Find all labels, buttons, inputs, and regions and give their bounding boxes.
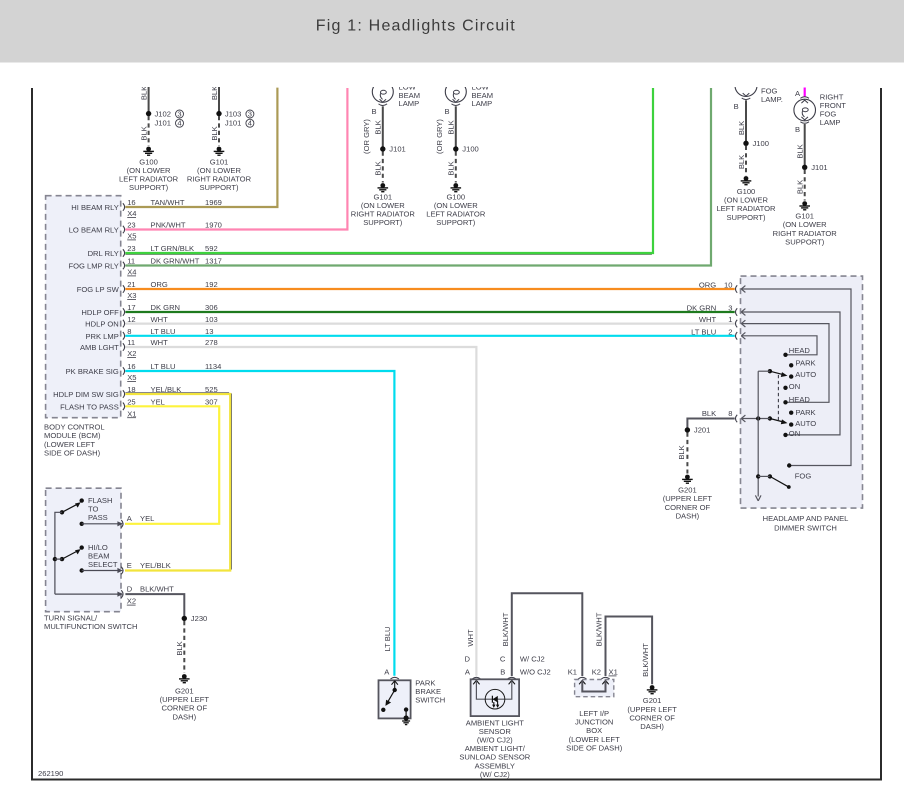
svg-text:8: 8 [728, 409, 732, 418]
svg-text:BLK: BLK [210, 126, 219, 140]
svg-text:A: A [384, 667, 390, 676]
svg-text:YEL/BLK: YEL/BLK [151, 385, 182, 394]
svg-text:PRK LMP: PRK LMP [85, 332, 118, 341]
svg-text:PARK: PARK [796, 408, 816, 417]
svg-text:BLK: BLK [447, 161, 456, 175]
svg-text:4: 4 [177, 119, 181, 128]
svg-text:1970: 1970 [205, 221, 222, 230]
wire BLK/WHT sensor B to junction box K1 [501, 593, 582, 676]
svg-text:SELECT: SELECT [88, 560, 118, 569]
wire BLK to splice J102 [139, 80, 148, 114]
svg-text:278: 278 [205, 338, 218, 347]
svg-text:J103: J103 [225, 109, 241, 118]
wire BLK/WHT to J230 [125, 594, 184, 618]
svg-text:J101: J101 [389, 145, 405, 154]
svg-text:X2: X2 [127, 349, 136, 358]
svg-text:BLK: BLK [677, 445, 686, 459]
svg-text:HEADLAMP AND PANEL: HEADLAMP AND PANEL [763, 514, 849, 523]
splice J101 (right fog lamp) [802, 163, 828, 172]
svg-text:PK BRAKE SIG: PK BRAKE SIG [66, 367, 119, 376]
ground G100 (fog lamp) [716, 176, 776, 222]
svg-text:AUTO: AUTO [795, 419, 816, 428]
svg-text:103: 103 [205, 315, 218, 324]
wire LT BLU label [383, 626, 392, 651]
wire BLK dashed J103 to G101 [210, 116, 219, 146]
splice J230 [182, 614, 208, 623]
svg-text:LAMP: LAMP [399, 99, 420, 108]
dimmer pin 3 DK GRN [687, 304, 840, 435]
BCM pin FOG LP SW 21 X3 [77, 280, 218, 300]
svg-text:X4: X4 [127, 209, 136, 218]
svg-text:LAMP.: LAMP. [761, 95, 783, 104]
svg-text:X5: X5 [127, 232, 136, 241]
svg-text:J102: J102 [155, 109, 171, 118]
svg-text:D: D [127, 585, 133, 594]
svg-text:BLK: BLK [374, 161, 383, 175]
svg-text:X1: X1 [127, 409, 136, 418]
switch output D + wire [55, 585, 174, 606]
BCM pin PRK LMP 8 [85, 327, 213, 341]
low beam lamp right (LOW BEAM LAMP) [444, 81, 493, 116]
svg-text:TAN/WHT: TAN/WHT [151, 198, 185, 207]
headlamp switch upper contacts [783, 346, 816, 391]
BCM pin HDLP DIM SW SIG 18 [53, 385, 218, 399]
svg-text:1317: 1317 [205, 257, 222, 266]
svg-text:BLK: BLK [139, 86, 148, 100]
svg-text:11: 11 [127, 257, 135, 266]
splice J100 (right lamp) [453, 145, 479, 154]
svg-text:BLK: BLK [374, 120, 383, 134]
svg-text:HDLP ON: HDLP ON [85, 320, 119, 329]
wire LT GRN/BLK 592 DRL RLY [125, 88, 653, 255]
switch FLASH TO PASS [60, 496, 113, 522]
svg-text:D: D [465, 654, 471, 663]
svg-text:W/O CJ2: W/O CJ2 [520, 668, 551, 677]
svg-text:FOG: FOG [795, 472, 812, 481]
svg-text:J100: J100 [462, 145, 478, 154]
dimmer pin 8 BLK [702, 409, 770, 422]
BCM pin FOG LMP RLY 11 X4 [68, 257, 221, 277]
wire BLK dashed to ground G101 [374, 152, 383, 183]
headlamp switch lower contacts [783, 395, 816, 438]
svg-text:DRL RLY: DRL RLY [88, 249, 119, 258]
body control module BCM box [44, 196, 121, 458]
header bar [0, 0, 904, 63]
svg-text:306: 306 [205, 303, 218, 312]
svg-text:X5: X5 [127, 373, 136, 382]
svg-text:1969: 1969 [205, 198, 222, 207]
ground G101 [187, 147, 252, 193]
svg-text:17: 17 [127, 303, 135, 312]
svg-text:J201: J201 [694, 426, 710, 435]
svg-text:DK GRN/WHT: DK GRN/WHT [151, 257, 200, 266]
svg-text:BLK: BLK [139, 126, 148, 140]
wire DK GRN/WHT 1317 FOG LMP RLY [125, 88, 711, 266]
splice label J101 (4) [225, 119, 254, 128]
svg-text:BLK/WHT: BLK/WHT [140, 585, 174, 594]
wire BLK right fog lamp to J101 [796, 124, 805, 167]
svg-text:FOG LMP RLY: FOG LMP RLY [68, 262, 118, 271]
svg-text:SUPPORT): SUPPORT) [363, 218, 403, 227]
svg-text:HDLP OFF: HDLP OFF [81, 308, 119, 317]
svg-text:PASS: PASS [88, 513, 108, 522]
wire YEL 307 FLASH TO PASS [125, 406, 219, 524]
svg-text:J101: J101 [155, 119, 171, 128]
svg-text:BLK: BLK [796, 144, 805, 158]
svg-text:SWITCH: SWITCH [415, 696, 445, 705]
BCM pin FLASH TO PASS 25 X1 [60, 398, 218, 419]
wire BLK dashed J201 to G201 [677, 433, 687, 474]
svg-text:25: 25 [127, 398, 135, 407]
svg-text:C: C [500, 654, 506, 663]
svg-text:LT GRN/BLK: LT GRN/BLK [151, 244, 195, 253]
fog switch [756, 463, 811, 489]
svg-text:SUPPORT): SUPPORT) [199, 183, 239, 192]
diagram border bottom [31, 779, 882, 781]
headlamp switch upper blade [758, 369, 787, 377]
svg-text:525: 525 [205, 385, 218, 394]
svg-text:LT BLU: LT BLU [151, 327, 176, 336]
svg-text:SUPPORT): SUPPORT) [129, 183, 169, 192]
svg-text:MULTIFUNCTION SWITCH: MULTIFUNCTION SWITCH [44, 622, 138, 631]
svg-text:21: 21 [127, 280, 135, 289]
svg-text:X2: X2 [127, 597, 136, 606]
svg-text:(OR GRY): (OR GRY) [435, 119, 444, 154]
switch contact E + wire [80, 561, 171, 574]
svg-text:16: 16 [127, 362, 135, 371]
svg-text:AUTO: AUTO [795, 370, 816, 379]
svg-text:LT BLU: LT BLU [151, 362, 176, 371]
svg-text:K2: K2 [592, 668, 601, 677]
svg-text:BLK: BLK [737, 155, 746, 169]
svg-text:YEL/BLK: YEL/BLK [140, 561, 171, 570]
wire BLK dashed to ground G101 (right fog) [796, 170, 805, 201]
fog lamp (FOG LAMP.) [734, 75, 783, 111]
svg-text:B: B [500, 668, 505, 677]
svg-text:PARK: PARK [796, 359, 816, 368]
svg-text:DK GRN: DK GRN [151, 303, 181, 312]
switch gang link dashed [777, 375, 779, 421]
svg-text:13: 13 [205, 327, 213, 336]
svg-text:X4: X4 [127, 268, 136, 277]
svg-text:3: 3 [248, 110, 252, 119]
splice J102 [146, 109, 184, 118]
BCM pin PK BRAKE SIG 16 X5 [66, 362, 222, 382]
svg-text:3: 3 [728, 304, 732, 313]
svg-text:BLK: BLK [796, 180, 805, 194]
ground G101 (left lamp) [351, 183, 416, 227]
splice J103 [216, 109, 254, 118]
svg-text:DK GRN: DK GRN [687, 304, 717, 313]
svg-text:B: B [371, 107, 376, 116]
BCM pin AMB LGHT 11 X2 [80, 338, 218, 358]
ground G101 (right fog lamp) [773, 201, 838, 246]
svg-text:ORG: ORG [699, 281, 716, 290]
svg-text:HDLP DIM SW SIG: HDLP DIM SW SIG [53, 390, 119, 399]
svg-text:HEAD: HEAD [789, 395, 811, 404]
wire YEL/BLK 525 HDLP DIM SW SIG [125, 393, 232, 571]
svg-text:1134: 1134 [205, 362, 221, 371]
svg-text:LAMP: LAMP [472, 99, 493, 108]
park brake switch [379, 667, 446, 724]
svg-text:AMB LGHT: AMB LGHT [80, 343, 119, 352]
svg-text:SUPPORT): SUPPORT) [785, 237, 825, 246]
svg-text:LO BEAM RLY: LO BEAM RLY [69, 226, 119, 235]
svg-text:A: A [465, 668, 471, 677]
svg-text:3: 3 [177, 110, 181, 119]
svg-text:FOG LP SW: FOG LP SW [77, 285, 120, 294]
svg-text:BLK: BLK [175, 641, 184, 655]
ground G100 (right lamp) [426, 183, 486, 227]
switch contact A + wire [80, 514, 155, 527]
wire BLK dashed to ground G100 (fog) [737, 146, 746, 176]
svg-text:X3: X3 [127, 291, 136, 300]
wire BLK dashed J102 to G100 [139, 116, 148, 146]
svg-text:ORG: ORG [151, 280, 168, 289]
svg-text:PNK/WHT: PNK/WHT [151, 221, 186, 230]
svg-text:(W/ CJ2): (W/ CJ2) [480, 770, 510, 779]
svg-text:SIDE OF DASH): SIDE OF DASH) [44, 448, 101, 457]
dimmer pin 1 WHT [699, 315, 829, 402]
wire BLK dashed J230 to G201 [175, 621, 185, 673]
svg-text:DIMMER SWITCH: DIMMER SWITCH [774, 524, 837, 533]
svg-text:HI BEAM RLY: HI BEAM RLY [71, 203, 119, 212]
wire DK GRN 306 HDLP OFF [125, 311, 734, 313]
wire BLK lamp right to J100 [435, 106, 456, 154]
svg-text:16: 16 [127, 198, 135, 207]
svg-text:YEL: YEL [151, 398, 165, 407]
svg-text:1: 1 [728, 315, 732, 324]
splice J101 (left lamp) [380, 145, 406, 154]
svg-text:192: 192 [205, 280, 218, 289]
wire BLK dashed to ground G100 [447, 152, 456, 183]
svg-text:J100: J100 [753, 139, 769, 148]
ground G100 [119, 147, 179, 193]
BCM pin HI BEAM RLY 16 X4 [71, 198, 222, 218]
svg-text:WHT: WHT [151, 315, 169, 324]
svg-text:DASH): DASH) [172, 712, 196, 721]
svg-text:SUPPORT): SUPPORT) [436, 218, 476, 227]
svg-text:592: 592 [205, 244, 218, 253]
svg-text:WHT: WHT [151, 338, 169, 347]
svg-text:ON: ON [789, 429, 800, 438]
svg-text:4: 4 [248, 119, 252, 128]
splice J201 [685, 426, 711, 435]
left I/P junction box [566, 668, 623, 753]
wire BLK fog lamp to J100 [737, 100, 746, 143]
wire BLK/WHT K2 to G201 [595, 612, 653, 684]
svg-text:BLK: BLK [737, 121, 746, 135]
svg-text:ON: ON [789, 382, 800, 391]
right front fog lamp [794, 92, 846, 134]
diagram border left [31, 88, 33, 780]
splice label J101 (3/4) [155, 119, 184, 128]
svg-text:262190: 262190 [38, 769, 63, 778]
svg-text:(OR GRY): (OR GRY) [362, 119, 371, 154]
svg-text:K1: K1 [568, 668, 577, 677]
wire WHT label [466, 629, 475, 647]
svg-text:SIDE OF DASH): SIDE OF DASH) [566, 743, 623, 752]
splice J100 (fog lamp) [743, 139, 769, 148]
svg-text:LT BLU: LT BLU [691, 327, 716, 336]
wire WHT 278 AMB LGHT [125, 347, 476, 676]
svg-text:LT BLU: LT BLU [383, 626, 392, 651]
wire ORG 192 FOG LP SW [125, 288, 734, 290]
dimmer pin 2 LT BLU [691, 327, 817, 355]
ground G201 (J230) [160, 674, 210, 721]
svg-text:11: 11 [127, 338, 135, 347]
svg-text:BLK/WHT: BLK/WHT [595, 612, 604, 646]
svg-text:BLK/WHT: BLK/WHT [501, 612, 510, 646]
BCM pin DRL RLY 23 [88, 244, 218, 258]
svg-text:X1: X1 [609, 668, 618, 677]
svg-text:8: 8 [127, 327, 131, 336]
wire BLK lamp left to J101 [362, 106, 383, 154]
svg-text:BLK: BLK [702, 409, 716, 418]
svg-text:B: B [444, 107, 449, 116]
svg-text:HEAD: HEAD [789, 346, 811, 355]
svg-text:LAMP: LAMP [820, 118, 841, 127]
svg-text:23: 23 [127, 221, 135, 230]
svg-text:W/ CJ2: W/ CJ2 [520, 654, 545, 663]
svg-text:2: 2 [728, 327, 732, 336]
BCM pin LO BEAM RLY 23 X5 [69, 221, 222, 241]
wire BLK dimmer pin8 to J201 [687, 419, 734, 431]
switch HI/LO BEAM SELECT [53, 543, 118, 569]
switch common vertical [755, 371, 761, 501]
svg-text:A: A [795, 89, 801, 98]
turn signal / multifunction switch box [44, 488, 138, 631]
wire TAN/WHT 1969 HI BEAM RLY [125, 88, 277, 207]
svg-text:BLK: BLK [447, 120, 456, 134]
svg-text:BLK: BLK [210, 86, 219, 100]
svg-text:23: 23 [127, 244, 135, 253]
svg-text:J230: J230 [191, 614, 207, 623]
headlamp switch lower blade [768, 416, 788, 424]
figure number 262190 [38, 769, 63, 778]
diagram border right [880, 88, 882, 780]
svg-text:307: 307 [205, 398, 218, 407]
svg-text:E: E [127, 561, 132, 570]
svg-text:A: A [127, 514, 133, 523]
svg-text:B: B [734, 102, 739, 111]
ground G201 (dimmer) [663, 475, 713, 521]
ambient light sensor [459, 654, 550, 779]
svg-text:DASH): DASH) [676, 511, 700, 520]
svg-text:18: 18 [127, 385, 135, 394]
svg-text:B: B [795, 125, 800, 134]
wire switch common bus [55, 512, 62, 594]
dimmer pin 10 ORG [699, 281, 851, 466]
wire PPL right front fog lamp feed [795, 88, 805, 98]
wire WHT 103 HDLP ON [125, 323, 734, 325]
svg-text:J101: J101 [225, 119, 241, 128]
low beam lamp left (LOW BEAM LAMP) [371, 81, 420, 116]
svg-text:FLASH TO PASS: FLASH TO PASS [60, 402, 119, 411]
svg-text:BLK/WHT: BLK/WHT [641, 643, 650, 677]
svg-text:DASH): DASH) [640, 722, 664, 731]
headlamp and panel dimmer switch box [741, 276, 863, 532]
svg-text:YEL: YEL [140, 514, 154, 523]
wire LT BLU 13 PRK LMP [125, 335, 734, 337]
BCM pin HDLP OFF 17 [81, 303, 217, 317]
wire BLK to splice J103 [210, 80, 219, 114]
svg-text:SUPPORT): SUPPORT) [726, 213, 766, 222]
svg-text:WHT: WHT [699, 315, 717, 324]
ground G201 (right) [627, 685, 677, 731]
svg-text:J101: J101 [811, 163, 827, 172]
wire LT BLU 1134 PK BRAKE SIG [125, 371, 394, 676]
BCM pin HDLP ON 12 [85, 315, 217, 329]
svg-text:12: 12 [127, 315, 135, 324]
wire PNK/WHT 1970 LO BEAM RLY [125, 88, 347, 230]
svg-text:10: 10 [724, 281, 732, 290]
svg-text:WHT: WHT [466, 629, 475, 647]
